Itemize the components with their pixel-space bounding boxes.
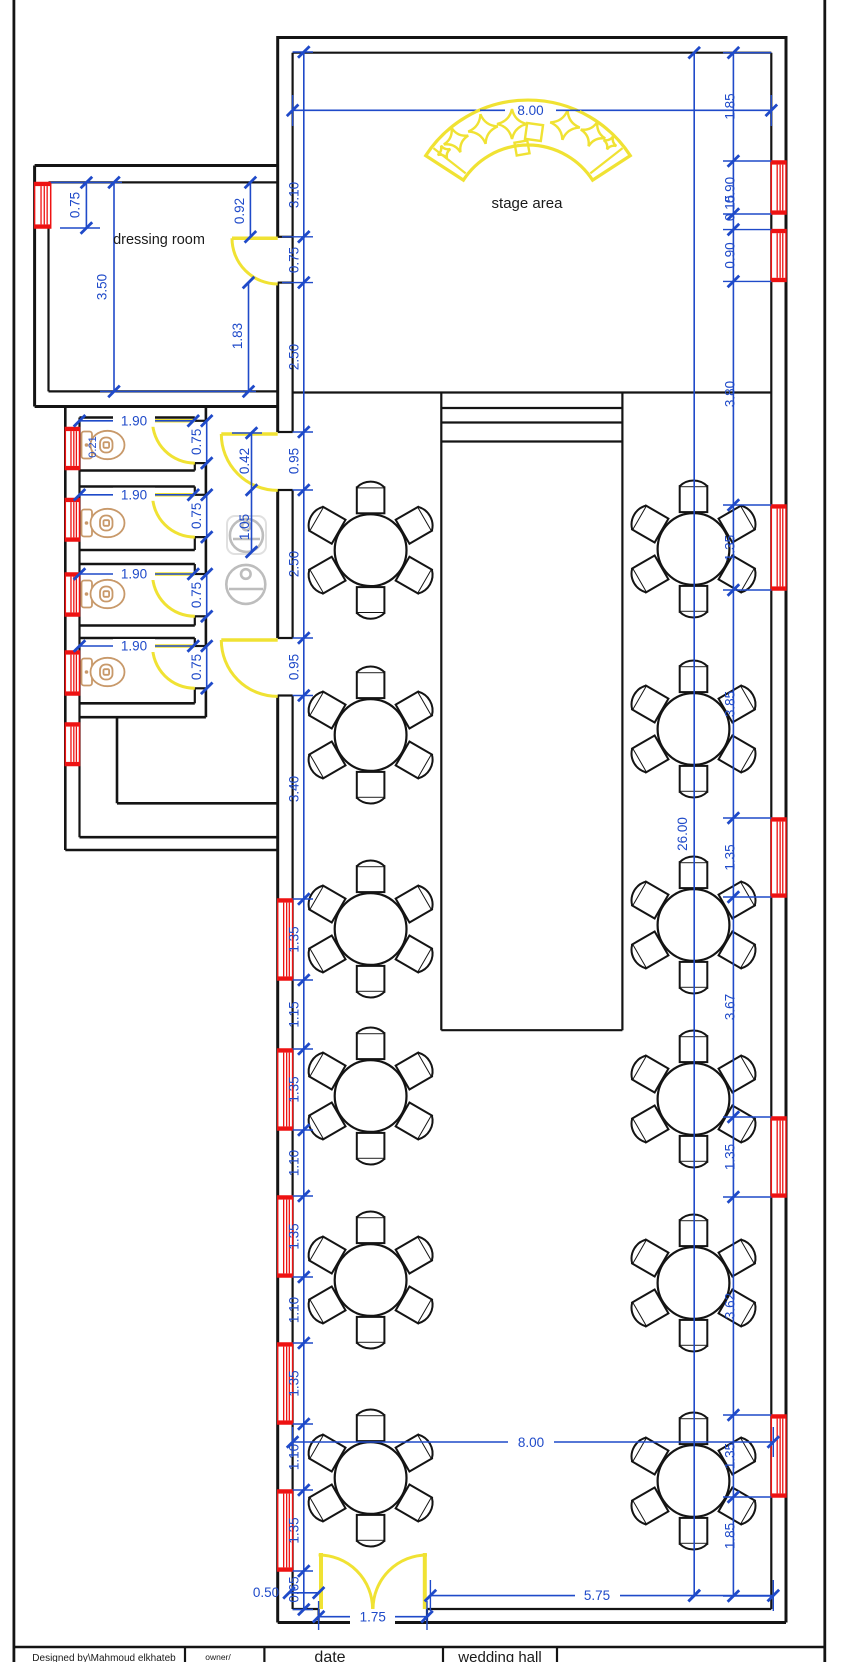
walls: toilet stall 3 — [80, 564, 206, 626]
toilet 1 — [82, 431, 125, 459]
table L3 with chairs — [304, 860, 436, 997]
toilet 3 — [82, 580, 125, 608]
svg-text:1.35: 1.35 — [723, 844, 738, 870]
window hall right wall 1 — [771, 161, 786, 214]
dim 1.75 text — [350, 1609, 395, 1624]
title block frame — [14, 1647, 825, 1662]
svg-text:1.35: 1.35 — [287, 1223, 302, 1249]
svg-text:0.95: 0.95 — [287, 654, 302, 680]
wall: toilet block left inner — [78, 418, 80, 838]
svg-text:8.00: 8.00 — [518, 1435, 544, 1450]
dim 8.00 top line — [287, 95, 777, 126]
opening: corridor door 1 gap — [276, 432, 294, 490]
dim chain left labels — [287, 182, 302, 1603]
svg-text:0.75: 0.75 — [189, 429, 204, 455]
table R2 with chairs — [627, 660, 759, 797]
sink 2 — [226, 565, 265, 604]
table L4 with chairs — [304, 1027, 436, 1164]
svg-text:1.90: 1.90 — [121, 639, 147, 654]
sink counter faint — [227, 516, 266, 554]
dim 1.90 stall 4 text — [113, 639, 155, 652]
door corridor 1 — [221, 434, 277, 490]
svg-text:3.85: 3.85 — [723, 691, 738, 717]
dim 1.90 stall 1 line — [74, 415, 199, 427]
window hall left wall 5 — [278, 1490, 293, 1571]
svg-text:1.10: 1.10 — [287, 1150, 302, 1176]
wall: hall left outer lower (below dressing door) — [276, 283, 279, 1623]
window toilet wall 2 — [65, 499, 79, 542]
table L1 with chairs — [304, 482, 436, 619]
jamb stub entrance right — [426, 1609, 428, 1623]
window toilet wall 3 — [65, 573, 79, 616]
dim 1.90 stall 2 line — [74, 489, 199, 501]
wall: annex bottom outer — [65, 849, 277, 852]
window hall left wall 1 — [278, 899, 293, 980]
wall: dressing left inner — [47, 182, 49, 391]
walls: toilet stall 1 — [80, 418, 206, 471]
wall: hall left inner — [292, 53, 294, 1609]
window hall right wall 5 — [771, 1117, 786, 1197]
svg-text:1.05: 1.05 — [237, 514, 252, 540]
dim chain right labels — [723, 93, 738, 1549]
wall: annex L inner horizontal — [117, 802, 278, 805]
table R6 with chairs — [627, 1412, 759, 1549]
svg-text:1.35: 1.35 — [287, 926, 302, 952]
wall: hall bottom inner left of entrance — [293, 1608, 319, 1610]
svg-text:0.21: 0.21 — [87, 436, 99, 457]
window hall right wall 3 — [771, 505, 786, 590]
dim chain left wall — [282, 46, 313, 1615]
dim 0.50 line — [283, 1587, 324, 1599]
door stall 3 — [153, 574, 195, 616]
svg-text:0.65: 0.65 — [287, 1576, 302, 1602]
dim 1.90 stall 1 text — [113, 414, 155, 427]
window hall right wall 6 — [771, 1415, 786, 1497]
dim 8.00 bottom line — [287, 1427, 779, 1457]
wall: dressing/toilet block slab outer — [35, 405, 278, 408]
svg-text:2.50: 2.50 — [287, 551, 302, 577]
svg-text:3.62: 3.62 — [723, 1293, 738, 1319]
svg-text:0.75: 0.75 — [287, 247, 302, 273]
svg-text:1.85: 1.85 — [723, 93, 738, 119]
wall: toilet block left outer — [64, 407, 67, 851]
jamb stub dressing door bottom — [278, 282, 293, 284]
catwalk runway with steps — [441, 393, 622, 1031]
door entrance right arc — [373, 1555, 427, 1609]
svg-text:1.10: 1.10 — [287, 1444, 302, 1470]
window toilet wall 5 — [65, 723, 79, 766]
svg-text:Designed by\Mahmoud elkhateb: Designed by\Mahmoud elkhateb — [32, 1653, 176, 1662]
sink 1 — [230, 519, 263, 552]
wall: hall left outer upper (above dressing door) — [276, 36, 279, 237]
wall: dressing left outer — [33, 166, 36, 407]
dim 1.90 stall 3 line — [74, 568, 199, 580]
svg-text:owner/: owner/ — [205, 1652, 231, 1662]
table R1 with chairs — [627, 480, 759, 617]
wall: hall top inner — [293, 52, 772, 54]
svg-text:1.35: 1.35 — [287, 1370, 302, 1396]
svg-text:0.75: 0.75 — [189, 654, 204, 680]
window toilet wall 4 — [65, 651, 79, 695]
dim 8.00 bottom text — [508, 1433, 554, 1450]
table L2 with chairs — [304, 666, 436, 803]
dim 0.75 window line — [60, 177, 100, 234]
wall: stall4 bottom outer — [79, 716, 206, 719]
door entrance left leaf — [319, 1553, 323, 1609]
dim 5.75 text — [575, 1587, 620, 1603]
svg-text:3.50: 3.50 — [95, 274, 110, 300]
dim 0.75 stall 4 line — [201, 640, 213, 694]
wall: annex passage bottom inner — [80, 836, 278, 839]
wall: dressing top outer — [35, 164, 278, 167]
svg-text:3.10: 3.10 — [287, 182, 302, 208]
table R4 with chairs — [627, 1030, 759, 1167]
svg-text:26.00: 26.00 — [675, 817, 690, 851]
door entrance left arc — [319, 1555, 373, 1609]
table L6 with chairs — [304, 1409, 436, 1546]
svg-text:1.35: 1.35 — [287, 1076, 302, 1102]
window hall right wall 4 — [771, 818, 786, 897]
dim chain corridor inner — [232, 427, 262, 558]
table R5 with chairs — [627, 1214, 759, 1351]
door entrance right leaf — [423, 1553, 427, 1609]
wall: stage bottom — [293, 391, 772, 393]
svg-text:3.67: 3.67 — [723, 994, 738, 1020]
svg-text:8.00: 8.00 — [517, 103, 543, 118]
dim 0.92 line — [245, 177, 257, 243]
svg-text:1.35: 1.35 — [287, 1517, 302, 1543]
svg-text:date: date — [314, 1649, 345, 1662]
svg-text:1.83: 1.83 — [230, 323, 245, 349]
window hall left wall 3 — [278, 1196, 293, 1277]
toilet 4 — [82, 658, 125, 686]
svg-text:0.75: 0.75 — [189, 582, 204, 608]
page border right — [823, 0, 826, 1662]
svg-text:2.50: 2.50 — [287, 344, 302, 370]
window hall left wall 2 — [278, 1049, 293, 1130]
door dressing room — [232, 238, 278, 284]
svg-text:5.75: 5.75 — [584, 1588, 610, 1603]
svg-text:wedding hall: wedding hall — [457, 1649, 541, 1662]
dim 0.75 stall 1 line — [201, 415, 213, 469]
wall: dressing top inner — [49, 181, 278, 183]
svg-text:0.90: 0.90 — [723, 242, 738, 268]
svg-text:1.85: 1.85 — [723, 1523, 738, 1549]
svg-text:0.75: 0.75 — [189, 503, 204, 529]
jamb stubs corridor door 2 — [278, 637, 293, 639]
dim 5.75 line — [425, 1580, 779, 1611]
wall: dressing bottom inner — [49, 390, 278, 392]
walls: toilet stall 2 — [80, 487, 206, 551]
svg-text:stage area: stage area — [492, 195, 564, 212]
dim 8.00 top text — [480, 103, 580, 118]
svg-text:1.10: 1.10 — [287, 1297, 302, 1323]
wall: toilet corridor right wall — [205, 407, 208, 718]
door stall 2 — [153, 495, 195, 537]
dim 26.00 line — [688, 47, 700, 1601]
svg-text:0.50: 0.50 — [253, 1585, 279, 1600]
stage decor band — [426, 100, 631, 180]
svg-text:0.42: 0.42 — [237, 448, 252, 474]
svg-text:3.40: 3.40 — [287, 776, 302, 802]
window hall left wall 4 — [278, 1343, 293, 1424]
svg-text:1.35: 1.35 — [723, 535, 738, 561]
walls: toilet stall 4 — [80, 638, 206, 703]
dim 1.90 stall 4 line — [74, 640, 199, 652]
svg-text:0.92: 0.92 — [232, 198, 247, 224]
dim 0.75 stall 2 line — [201, 489, 213, 543]
svg-text:1.75: 1.75 — [360, 1610, 386, 1625]
svg-text:0.75: 0.75 — [67, 192, 82, 218]
jamb stub dressing door top — [278, 236, 293, 238]
dim 1.90 stall 2 text — [113, 488, 155, 501]
jamb stub entrance left — [318, 1609, 320, 1623]
svg-text:0.15: 0.15 — [723, 195, 738, 221]
wall: hall bottom inner right of entrance — [427, 1608, 771, 1610]
svg-text:dressing room: dressing room — [113, 232, 205, 248]
svg-text:1.35: 1.35 — [723, 1443, 738, 1469]
svg-text:1.90: 1.90 — [121, 487, 147, 502]
svg-text:0.95: 0.95 — [287, 448, 302, 474]
window dressing room left wall — [35, 183, 51, 229]
dim 1.83 line — [243, 277, 255, 397]
svg-text:1.90: 1.90 — [121, 567, 147, 582]
opening: corridor door 2 gap — [276, 638, 294, 696]
door corridor 2 — [221, 640, 277, 696]
dim 1.75 line — [313, 1601, 433, 1630]
toilet 2 — [82, 509, 125, 537]
svg-text:1.15: 1.15 — [287, 1001, 302, 1027]
window hall right wall 2 — [771, 230, 786, 282]
svg-text:3.80: 3.80 — [723, 381, 738, 407]
door stall 4 — [153, 646, 195, 688]
wall: annex L inner vertical — [116, 717, 119, 803]
svg-text:1.90: 1.90 — [121, 413, 147, 428]
dim 1.90 stall 3 text — [113, 567, 155, 580]
page border left — [12, 0, 15, 1662]
svg-text:1.35: 1.35 — [723, 1144, 738, 1170]
stage decor stars — [435, 108, 620, 162]
wall: hall bottom outer — [278, 1621, 786, 1624]
jamb stubs corridor door 1 — [278, 431, 293, 433]
dim chain right wall — [723, 47, 771, 1602]
wall: hall right inner — [770, 53, 772, 1609]
dim 3.50 line — [51, 177, 256, 398]
wall: hall right outer — [785, 36, 788, 1623]
door stall 1 — [153, 421, 195, 463]
wall: hall top outer — [278, 36, 786, 39]
table R3 with chairs — [627, 856, 759, 993]
window toilet wall 1 — [65, 428, 79, 470]
dim 0.75 stall 3 line — [201, 568, 213, 622]
table L5 with chairs — [304, 1211, 436, 1348]
